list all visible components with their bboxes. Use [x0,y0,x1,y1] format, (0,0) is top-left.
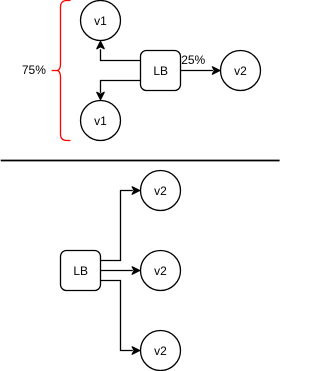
node v2 (bottom section, top) [141,171,181,211]
wire LB to v1 top [97,41,141,60]
wire LB to v2 top (elbow up) [101,187,140,261]
node v2 (bottom section, bottom) [141,331,181,371]
node v1 (lower) [81,101,121,141]
divider line [1,160,280,162]
svg-text:v1: v1 [94,114,107,128]
svg-text:v2: v2 [234,64,247,78]
node v2 (bottom section, middle) [141,251,181,291]
node v1 (top) [81,1,121,41]
load balancer LB (bottom section) [61,251,101,291]
brace 75% (red curly bracket) [52,1,71,141]
svg-text:LB: LB [73,264,88,278]
node v2 (top section) [221,51,261,91]
wire LB to v2 (25%) [181,67,220,74]
svg-text:v2: v2 [154,264,167,278]
wire LB to v2 bottom (elbow down) [101,281,140,355]
wire LB to v1 lower [97,81,141,100]
svg-text:v2: v2 [154,184,167,198]
load balancer LB (top section) [141,51,181,91]
wire LB to v2 middle (straight) [101,267,140,274]
svg-text:v2: v2 [154,344,167,358]
svg-text:75%: 75% [22,63,46,77]
svg-text:25%: 25% [181,53,205,67]
svg-text:v1: v1 [94,14,107,28]
svg-text:LB: LB [153,64,168,78]
